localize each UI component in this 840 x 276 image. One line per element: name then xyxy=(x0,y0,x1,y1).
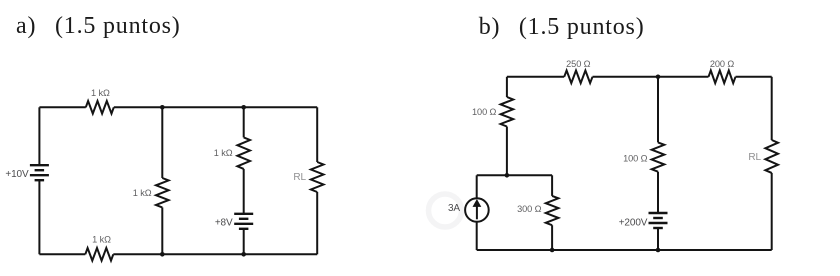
wire a-bottom-left xyxy=(39,253,85,255)
battery V1 +10V xyxy=(30,165,49,180)
wire a-br2-mid xyxy=(243,169,245,214)
svg-text:250 Ω: 250 Ω xyxy=(566,59,590,69)
wire b-top-3 xyxy=(736,76,772,78)
wire b-mid2-top xyxy=(657,77,659,143)
wire b-mid2-mid xyxy=(657,172,659,213)
resistor 200 Ohm xyxy=(709,71,736,84)
resistor R mid-a 1k xyxy=(156,178,169,207)
svg-text:1 kΩ: 1 kΩ xyxy=(92,234,111,244)
svg-text:1 kΩ: 1 kΩ xyxy=(214,148,233,158)
wire b-right-top xyxy=(771,77,773,140)
svg-text:100 Ω: 100 Ω xyxy=(623,154,647,164)
wire b-top-1 xyxy=(507,76,564,78)
wire a-mid1-top xyxy=(161,107,163,178)
svg-text:+8V: +8V xyxy=(215,217,233,228)
svg-text:RL: RL xyxy=(748,152,761,163)
wire a-left-top xyxy=(38,107,40,165)
wire b-right-bottom xyxy=(771,173,773,250)
node a-bottom-1 xyxy=(160,252,165,257)
battery V2 +8V xyxy=(234,214,253,229)
svg-text:+10V: +10V xyxy=(5,169,29,180)
wire a-br2-bottom xyxy=(243,229,245,254)
wire b-300-bottom xyxy=(551,225,553,250)
current source I1 3A xyxy=(465,198,489,222)
header a) (1.5 puntos) xyxy=(16,13,36,40)
resistor 300 Ohm xyxy=(546,196,559,225)
wire b-300-top xyxy=(551,175,553,196)
wire a-mid1-bottom xyxy=(161,207,163,254)
resistor 250 Ohm xyxy=(564,71,592,84)
wire b-mid-horizontal xyxy=(477,174,552,176)
resistor RL-a xyxy=(311,162,324,192)
wire a-right-top xyxy=(316,107,318,162)
node b-bottom-1 xyxy=(550,248,555,253)
resistor 100 Ohm left-b xyxy=(501,97,514,127)
wire b-left-top xyxy=(506,77,508,97)
svg-text:+200V: +200V xyxy=(619,218,648,229)
node a-top-2 xyxy=(241,105,246,110)
wire a-right-bottom xyxy=(316,192,318,254)
wire a-bottom-right xyxy=(113,253,317,255)
resistor R br2-a 1k xyxy=(237,137,250,169)
svg-text:RL: RL xyxy=(293,172,306,183)
resistor RL-b xyxy=(765,140,778,173)
wire b-left-bottom xyxy=(506,127,508,176)
wire b-top-2 xyxy=(593,76,709,78)
wire b-cs-top xyxy=(476,175,478,198)
svg-text:3A: 3A xyxy=(448,203,460,214)
node a-bottom-2 xyxy=(241,252,246,257)
resistor R top-a 1k xyxy=(86,101,114,114)
wire b-cs-bottom xyxy=(476,222,478,250)
node b-top xyxy=(656,75,661,80)
wire a-top-right xyxy=(114,106,317,108)
svg-text:1 kΩ: 1 kΩ xyxy=(91,88,110,98)
battery V3 +200V xyxy=(649,213,668,228)
node b-mid xyxy=(505,173,510,178)
svg-text:1 kΩ: 1 kΩ xyxy=(133,188,152,198)
node a-top-1 xyxy=(160,105,165,110)
svg-text:300 Ω: 300 Ω xyxy=(517,204,541,214)
svg-text:200 Ω: 200 Ω xyxy=(710,59,734,69)
wire a-left-bottom xyxy=(38,180,40,254)
resistor R bottom-a 1k xyxy=(85,248,113,261)
header b) (1.5 puntos) xyxy=(479,14,501,41)
node b-bottom-2 xyxy=(656,248,661,253)
wire b-mid2-bottom xyxy=(657,228,659,250)
faint highlight ring near 3A xyxy=(429,194,462,227)
resistor 100 Ohm mid-b xyxy=(652,142,665,171)
wire a-top-left xyxy=(39,106,85,108)
svg-text:100 Ω: 100 Ω xyxy=(472,107,496,117)
wire b-bottom xyxy=(477,249,772,251)
wire a-br2-top xyxy=(243,107,245,137)
